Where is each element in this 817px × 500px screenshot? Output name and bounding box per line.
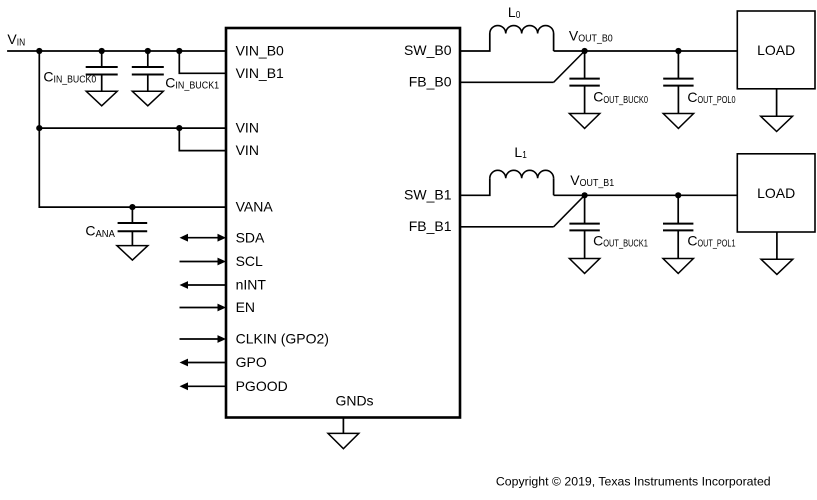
capacitor COUT_POL0 <box>663 51 693 114</box>
capacitor CIN_BUCK1 <box>132 51 164 91</box>
ground (GNDs) <box>328 433 359 448</box>
svg-text:EN: EN <box>236 299 255 315</box>
wire left vertical rail down to VANA row <box>39 51 226 207</box>
capacitor CANA <box>118 207 148 246</box>
ground (COUT_POL1) <box>663 259 693 274</box>
load block LOAD0 <box>737 11 815 89</box>
svg-text:SDA: SDA <box>236 229 265 245</box>
ground (COUT_POL0) <box>663 114 693 129</box>
arrow CLKIN input <box>180 335 227 343</box>
wire VIN_B1 branch <box>179 51 226 73</box>
wire LOAD0 ground stem <box>776 89 778 117</box>
svg-text:CLKIN (GPO2): CLKIN (GPO2) <box>236 331 329 347</box>
junction dot COUT_POL0 <box>675 48 681 54</box>
svg-text:VIN_B0: VIN_B0 <box>236 43 284 59</box>
junction dot CANA <box>129 204 135 210</box>
svg-text:SW_B0: SW_B0 <box>404 42 452 58</box>
wire SW_B1 to inductor <box>460 178 490 195</box>
arrow SDA bidirectional <box>180 234 227 242</box>
wire LOAD1 ground stem <box>776 232 778 259</box>
capacitor COUT_BUCK0 <box>569 51 599 114</box>
junction dot VIN_B1 branch <box>176 48 182 54</box>
wire VIN row <box>39 127 226 129</box>
svg-text:VANA: VANA <box>236 199 274 215</box>
capacitor COUT_POL1 <box>663 195 693 258</box>
svg-text:nINT: nINT <box>236 277 267 293</box>
arrow PGOOD output <box>180 382 227 390</box>
capacitor CIN_BUCK0 <box>86 51 118 91</box>
svg-text:VIN: VIN <box>236 120 259 136</box>
wire VIN second branch <box>179 128 226 151</box>
junction dot CIN_BUCK0 <box>99 48 105 54</box>
node VOUT_B1 <box>582 192 588 198</box>
load block LOAD1 <box>737 154 815 232</box>
IC U1 main block <box>226 28 460 418</box>
svg-text:GPO: GPO <box>236 354 267 370</box>
svg-text:FB_B0: FB_B0 <box>409 74 452 90</box>
arrow EN input <box>180 304 227 312</box>
inductor L0 <box>490 26 554 34</box>
arrow SCL input <box>180 258 227 266</box>
ground (COUT_BUCK1) <box>569 259 599 274</box>
ground (LOAD0) <box>761 116 793 131</box>
svg-text:GNDs: GNDs <box>335 393 373 409</box>
junction dot VIN second branch <box>176 125 182 131</box>
junction dot VIN rail / left vertical <box>36 48 42 54</box>
wire FB_B1 diagonal to VOUT_B1 node <box>554 195 585 227</box>
wire FB_B1 <box>460 226 554 228</box>
ground (CANA) <box>117 246 148 261</box>
arrow nINT output <box>180 281 227 289</box>
wire inductor L1 to VOUT_B1 rail <box>554 178 738 195</box>
wire FB_B0 diagonal to VOUT_B0 node <box>554 51 585 82</box>
ground (LOAD1) <box>761 259 793 274</box>
svg-text:Copyright © 2019, Texas Instru: Copyright © 2019, Texas Instruments Inco… <box>496 475 771 489</box>
wire GNDs stem <box>342 418 344 434</box>
wire FB_B0 <box>460 81 554 83</box>
node VOUT_B0 <box>582 48 588 54</box>
svg-text:LOAD: LOAD <box>757 42 795 58</box>
svg-text:VIN: VIN <box>236 142 259 158</box>
ground (CIN_BUCK1) <box>132 91 163 106</box>
capacitor COUT_BUCK1 <box>569 195 599 258</box>
svg-text:SW_B1: SW_B1 <box>404 187 452 203</box>
wire SW_B0 to inductor <box>460 34 490 52</box>
wire VIN top rail <box>7 50 226 52</box>
wire inductor L0 to VOUT_B0 rail <box>554 34 738 52</box>
inductor L1 <box>490 170 554 178</box>
svg-text:VIN_B1: VIN_B1 <box>236 65 284 81</box>
svg-text:PGOOD: PGOOD <box>236 378 288 394</box>
svg-text:FB_B1: FB_B1 <box>409 218 452 234</box>
junction dot VIN row <box>36 125 42 131</box>
junction dot COUT_POL1 <box>675 192 681 198</box>
junction dot CIN_BUCK1 <box>145 48 151 54</box>
svg-text:LOAD: LOAD <box>757 185 795 201</box>
ground (CIN_BUCK0) <box>86 91 117 106</box>
arrow GPO output <box>180 359 227 367</box>
ground (COUT_BUCK0) <box>569 114 599 129</box>
svg-text:SCL: SCL <box>236 253 263 269</box>
